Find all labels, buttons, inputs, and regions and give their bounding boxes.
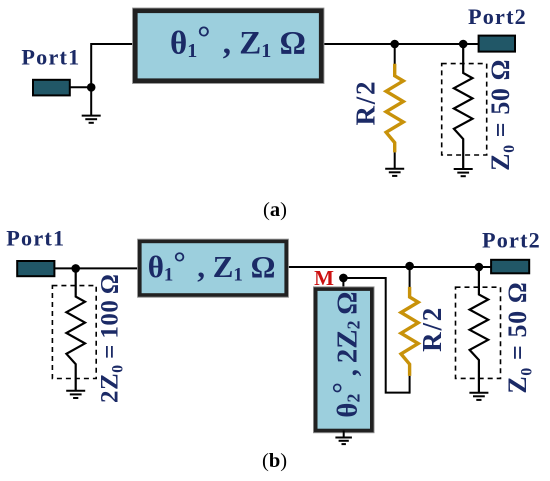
port Port1 (a) connector [33,80,70,96]
node N1a junction [87,83,96,92]
resistor R/2 (b) top lead [409,266,411,288]
ground below stub TL2 (b) [343,431,345,438]
node N1b junction [71,264,80,273]
wire TL1b output to Port2b [284,266,492,268]
resistor R/2 (a) bottom lead [394,152,396,168]
svg-text:(b): (b) [262,450,287,472]
resistor R/2 (b) gold zigzag [401,287,418,376]
wire Port1b to TL1b input [54,267,140,269]
resistor R/2 (a) gold zigzag [386,64,403,153]
wire node M stem into stub TL2 [342,278,344,289]
svg-text:Port1: Port1 [6,226,65,251]
svg-text:Port1: Port1 [21,45,80,70]
transmission line TL1 (b) body [138,239,289,297]
resistor Z0 (b) zigzag with leads [470,271,489,393]
stub transmission line TL2 (b) body [314,287,375,433]
wire node N1a up and right to TL1a input [91,44,135,116]
resistor R/2 (a) top lead [394,44,396,65]
node N3b junction (Z0 tap) [475,263,484,272]
resistor 2Z0 (b) zigzag with leads [66,269,85,391]
svg-text:Port2: Port2 [468,4,527,29]
port Port1 (b) connector [17,261,54,276]
source 2Z0 dashed box (b) [52,286,96,379]
wire Port1a to node N1a [70,86,92,88]
load Z0 dashed box (b) [456,287,501,378]
wire TL1a output to Port2a [322,43,480,45]
svg-text:R/2: R/2 [417,306,447,352]
svg-text:Z0 = 50 Ω: Z0 = 50 Ω [503,282,536,394]
svg-text:Port2: Port2 [482,228,541,253]
node N2b junction (R/2 tap) [405,262,414,271]
transmission line TL1 (a) body [133,8,324,83]
resistor R/2 (b) bottom lead [409,376,411,394]
svg-text:(a): (a) [263,199,287,221]
svg-text:Z0 = 50 Ω: Z0 = 50 Ω [486,59,518,171]
wire node M to R/2b bottom (right and down) [343,278,409,393]
ground below R/2 (a) [385,168,404,170]
ground below Z0 (b) [469,392,488,394]
ground below 2Z0 (b) [66,390,85,392]
ground at Port1 (a) [82,115,101,117]
port Port2 (a) connector [479,36,515,52]
node N3a junction (Z0 tap) [459,40,468,49]
resistor Z0 (a) zigzag with leads [454,48,473,169]
svg-text:2Z0 = 100 Ω: 2Z0 = 100 Ω [97,274,127,403]
load Z0 dashed box (a) [442,64,487,155]
svg-text:R/2: R/2 [351,80,381,126]
node M junction dot [339,274,348,283]
ground below Z0 (a) [454,168,473,170]
node N2a junction (R/2 tap) [390,40,399,49]
port Port2 (b) connector [491,260,529,274]
